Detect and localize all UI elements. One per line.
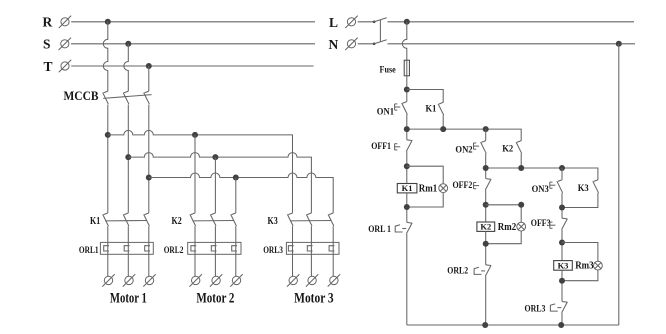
pushbutton OFF2 actuator	[474, 183, 480, 189]
wire main vertical top with hop	[402, 22, 406, 60]
pushbutton OFF3 contact	[562, 218, 568, 229]
svg-text:ORL 1: ORL 1	[368, 225, 391, 235]
coil K2	[477, 222, 495, 232]
ORL1 heater element 2	[124, 246, 129, 251]
wire S phase	[71, 43, 315, 45]
overload contact ORL2	[485, 265, 491, 276]
terminal motor 1 phase 3	[143, 274, 155, 286]
pushbutton ON1 contact	[402, 102, 408, 115]
overload contact ORL1 actuator	[395, 225, 406, 232]
wire ORL3 to motor terminal 1	[292, 242, 294, 276]
pushbutton ON3 actuator	[550, 182, 556, 188]
pushbutton OFF2 contact	[485, 179, 491, 190]
K2 mechanical link	[192, 220, 233, 222]
wire bus 1 with hops	[108, 130, 293, 212]
overload contact ORL3 actuator	[550, 304, 561, 311]
wire ORL2 to motor terminal 2	[214, 242, 216, 276]
node2 at rung2	[483, 165, 489, 171]
wire ON1 down	[406, 115, 408, 140]
wire N return right side	[618, 44, 620, 325]
pushbutton OFF1 actuator	[395, 144, 401, 150]
label Rm1	[419, 183, 437, 194]
wire K3 contact 1 to overload	[292, 226, 294, 242]
coil K3	[554, 260, 573, 270]
wire T phase	[71, 65, 313, 67]
node bus2 tap	[125, 154, 131, 160]
switch blade L	[374, 18, 387, 22]
svg-text:Motor 1: Motor 1	[110, 291, 147, 307]
ORL3 heater element 1	[288, 246, 293, 251]
pushbutton OFF1 contact	[406, 140, 412, 151]
node after OFF3	[559, 240, 565, 246]
wire R tap vertical with hops	[103, 22, 108, 91]
wire bus 3 with hops	[149, 173, 333, 213]
svg-text:OFF1: OFF1	[371, 142, 391, 152]
wire motor2 phase3 down	[235, 178, 237, 213]
wire ON3 down	[561, 193, 563, 218]
node bottom rung3	[558, 322, 564, 328]
ORL2 heater element 1	[191, 246, 196, 251]
wire K2 contact 3 to overload	[235, 226, 237, 242]
svg-text:K1: K1	[402, 183, 413, 193]
label ORL 1	[368, 225, 391, 235]
label ORL2	[447, 267, 468, 277]
ORL3 heater element 3	[329, 246, 334, 251]
node bus1 tap	[105, 132, 111, 138]
wire fuse to node	[406, 76, 408, 102]
wire K1 contact 1 to overload	[107, 226, 109, 242]
node N right tap	[616, 41, 622, 47]
contactor K2 contact 3	[231, 213, 237, 226]
wire ORL2 to motor terminal 1	[194, 242, 196, 276]
label K1 latch	[426, 105, 437, 115]
wire motor2 phase2 down	[214, 157, 216, 213]
wire OFF1 down	[406, 151, 408, 183]
wire K1 contact 2 to overload	[127, 226, 129, 242]
svg-text:K1: K1	[426, 105, 437, 115]
wire ORL1 to motor terminal 2	[127, 242, 129, 276]
switch pivot L	[373, 21, 376, 24]
pushbutton OFF3 actuator	[550, 222, 556, 228]
label K3 contactor	[268, 216, 278, 227]
label MCCB	[64, 89, 99, 103]
pushbutton ON3 contact	[557, 180, 563, 193]
wire branch to Rm3	[562, 243, 598, 262]
label ORL2	[164, 246, 184, 256]
wire branch to Rm2	[486, 205, 522, 222]
label ORL3	[525, 305, 546, 315]
label ORL3	[263, 246, 283, 256]
contact K1 latch	[438, 102, 444, 115]
node2 at latch	[518, 165, 524, 171]
svg-text:Motor 2: Motor 2	[196, 291, 234, 307]
coil K1	[397, 183, 417, 193]
wire node2 rail	[486, 168, 598, 180]
label S	[43, 37, 51, 52]
svg-text:K3: K3	[558, 260, 569, 270]
terminal motor 1 phase 2	[123, 274, 135, 286]
switch pivot N	[373, 43, 376, 46]
ORL2 heater element 3	[232, 246, 237, 251]
contact K2 latch	[516, 141, 522, 154]
wire pole2 down	[127, 105, 129, 213]
svg-text:ON1: ON1	[377, 107, 394, 117]
wire coil K1 down	[406, 193, 408, 223]
wire ON2 down	[485, 154, 487, 179]
switch blade N	[374, 40, 387, 44]
label R	[43, 15, 53, 30]
pushbutton ON1 actuator	[395, 104, 401, 110]
wire Rm1 return	[407, 193, 443, 207]
fuse body	[404, 60, 409, 76]
terminal motor 2 phase 3	[230, 274, 242, 286]
wire K2 contact 2 to overload	[214, 226, 216, 242]
wire main to bottom rail	[406, 234, 408, 325]
ORL1 heater element 3	[145, 246, 150, 251]
overload contact ORL3	[562, 302, 568, 313]
terminal motor 3 phase 3	[328, 274, 340, 286]
wire K2 latch down	[520, 154, 522, 168]
svg-text:N: N	[329, 37, 339, 52]
breaker MCCB pole 3	[144, 91, 150, 104]
contactor K2 contact 1	[190, 213, 196, 226]
node bottom rung2	[482, 322, 488, 328]
wire branch to K1 latch	[407, 90, 443, 103]
svg-text:K3: K3	[578, 184, 589, 194]
label T	[44, 59, 53, 74]
wire K3 latch return	[562, 193, 598, 208]
wire L line	[388, 21, 635, 23]
node after fuse	[404, 87, 410, 93]
K3 mechanical link	[290, 220, 331, 222]
node after OFF2 at branch	[518, 202, 524, 208]
wire bottom rail	[407, 324, 619, 326]
node after ON3	[559, 205, 565, 211]
node S tap	[125, 41, 131, 47]
node after coil K2	[483, 241, 489, 247]
label L	[329, 15, 338, 30]
svg-text:ORL2: ORL2	[447, 267, 468, 277]
pushbutton ON2 contact	[481, 141, 487, 154]
node after OFF2	[483, 202, 489, 208]
label ON1	[377, 107, 394, 117]
terminal motor 1 phase 1	[102, 274, 114, 286]
overload relay ORL2 box	[188, 242, 241, 254]
svg-text:ORL3: ORL3	[525, 305, 546, 315]
svg-text:R: R	[43, 15, 53, 30]
node after coil K3	[559, 278, 565, 284]
node motor2 bus3 tap	[233, 175, 239, 181]
wire coil K2 down	[485, 231, 487, 264]
ORL1 heater element 1	[104, 246, 109, 251]
wire K2 contact 1 to overload	[194, 226, 196, 242]
contactor K1 contact 2	[123, 213, 129, 226]
wire bus 2 with hops	[128, 153, 311, 213]
node1 at rung2	[483, 126, 489, 132]
contactor K3 contact 3	[328, 213, 334, 226]
wire branch to Rm1	[407, 166, 443, 184]
label OFF1	[371, 142, 391, 152]
svg-text:OFF3: OFF3	[531, 219, 551, 229]
wire L in	[358, 21, 374, 23]
wire fuse through	[406, 60, 408, 76]
K1 mechanical link	[105, 220, 146, 222]
wire N line	[388, 43, 636, 45]
node motor2 bus1 tap	[192, 132, 198, 138]
node1 at latch	[440, 126, 446, 132]
label K3 latch	[578, 184, 589, 194]
contact K3 latch	[593, 180, 599, 193]
wire S tap vertical with hop	[124, 44, 129, 91]
label K1 contactor	[90, 216, 100, 227]
breaker MCCB pole 1	[103, 91, 109, 104]
node bus3 tap	[146, 175, 152, 181]
label Rm2	[498, 222, 516, 233]
ORL3 heater element 2	[307, 246, 312, 251]
node motor2 bus2 tap	[212, 154, 218, 160]
pushbutton ON2 actuator	[474, 143, 480, 149]
label Motor 3	[294, 291, 334, 307]
wire T tap vertical	[148, 66, 150, 91]
lamp Rm3	[594, 261, 603, 270]
svg-text:OFF2: OFF2	[453, 181, 473, 191]
wire ORL1 to motor terminal 1	[107, 242, 109, 276]
svg-text:K3: K3	[268, 216, 278, 227]
contactor K1 contact 3	[144, 213, 150, 226]
wire Rm2 return	[486, 231, 522, 244]
svg-text:Rm1: Rm1	[419, 183, 437, 194]
contactor K3 contact 1	[287, 213, 293, 226]
terminal S	[59, 38, 71, 50]
svg-text:ORL3: ORL3	[263, 246, 283, 256]
svg-text:Motor 3: Motor 3	[294, 291, 334, 307]
overload contact ORL1	[406, 222, 412, 233]
svg-text:K2: K2	[502, 144, 513, 154]
node2 at rung3	[559, 165, 565, 171]
svg-text:ON2: ON2	[455, 145, 472, 155]
overload contact ORL2 actuator	[474, 267, 485, 274]
overload relay ORL1 box	[100, 242, 153, 254]
label K2 contactor	[172, 216, 182, 227]
wire rung2 vertical upper	[485, 129, 487, 140]
label Motor 1	[110, 291, 147, 307]
node1 at main	[404, 126, 410, 132]
svg-text:K2: K2	[480, 222, 491, 232]
svg-text:Rm3: Rm3	[575, 261, 593, 272]
wire N in	[358, 43, 374, 45]
lamp Rm2	[517, 222, 526, 231]
switch mechanical link	[379, 20, 381, 42]
MCCB mechanical link	[103, 95, 151, 99]
svg-text:ON3: ON3	[532, 185, 549, 195]
svg-text:L: L	[329, 15, 338, 30]
terminal L	[345, 16, 357, 28]
svg-text:Rm2: Rm2	[498, 222, 516, 233]
svg-text:ORL1: ORL1	[79, 246, 99, 256]
contactor K1 contact 1	[103, 213, 109, 226]
terminal motor 3 phase 2	[306, 274, 318, 286]
ORL2 heater element 2	[211, 246, 216, 251]
wire K3 contact 3 to overload	[332, 226, 334, 242]
terminal motor 2 phase 2	[210, 274, 222, 286]
wire ORL3 to motor terminal 2	[310, 242, 312, 276]
wire node1 rail	[407, 129, 521, 140]
label OFF3	[531, 219, 551, 229]
wire ORL3 to motor terminal 3	[332, 242, 334, 276]
wire R phase	[71, 21, 315, 23]
wire K3 contact 2 to overload	[310, 226, 312, 242]
wire ORL1 to motor terminal 3	[148, 242, 150, 276]
breaker MCCB pole 2	[123, 91, 129, 104]
svg-text:ORL2: ORL2	[164, 246, 184, 256]
wire K1 contact 3 to overload	[148, 226, 150, 242]
terminal T	[59, 60, 71, 72]
overload relay ORL3 box	[286, 242, 339, 254]
terminal motor 2 phase 1	[190, 274, 202, 286]
label N	[329, 37, 339, 52]
label ORL1	[79, 246, 99, 256]
node T tap	[146, 63, 152, 69]
node after OFF1	[404, 163, 410, 169]
svg-text:K2: K2	[172, 216, 182, 227]
label OFF2	[453, 181, 473, 191]
wire K1 latch down	[442, 115, 444, 129]
label ON2	[455, 145, 472, 155]
terminal N	[345, 38, 357, 50]
label K2 latch	[502, 144, 513, 154]
contactor K3 contact 2	[306, 213, 312, 226]
wire OFF2 down	[485, 190, 487, 222]
node R tap	[105, 19, 111, 25]
wire rung3 to bottom rail	[561, 313, 563, 325]
wire OFF3 down	[561, 230, 563, 261]
label Motor 2	[196, 291, 234, 307]
svg-text:S: S	[43, 37, 51, 52]
wire Rm3 return	[562, 270, 598, 281]
terminal R	[59, 16, 71, 28]
wire coil K3 down	[561, 270, 563, 301]
wire ORL2 to motor terminal 3	[235, 242, 237, 276]
wire pole1 down	[107, 105, 109, 213]
label Rm3	[575, 261, 593, 272]
lamp Rm1	[439, 184, 448, 193]
label Fuse	[380, 66, 396, 76]
node after coil K1	[404, 204, 410, 210]
svg-text:Fuse: Fuse	[380, 66, 396, 76]
terminal motor 3 phase 1	[287, 274, 299, 286]
wire pole3 down	[148, 105, 150, 213]
svg-text:T: T	[44, 59, 53, 74]
node L tap	[404, 19, 410, 25]
wire rung2 to bottom rail	[485, 276, 487, 325]
svg-text:MCCB: MCCB	[64, 89, 99, 103]
svg-text:K1: K1	[90, 216, 100, 227]
wire rung3 vertical upper	[561, 168, 563, 180]
contactor K2 contact 2	[210, 213, 216, 226]
wire motor2 phase1 down	[194, 135, 196, 213]
label ON3	[532, 185, 549, 195]
